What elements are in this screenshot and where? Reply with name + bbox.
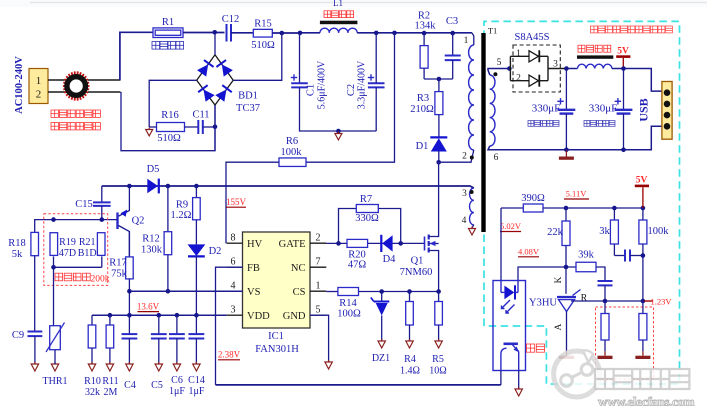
wire (185, 126, 199, 128)
wire (339, 209, 357, 244)
wire (543, 207, 566, 209)
svg-text:13.6V: 13.6V (137, 302, 160, 312)
transistor Q2 (PNP) (118, 186, 145, 257)
diode D4 (381, 235, 396, 265)
svg-text:4.08V: 4.08V (518, 247, 540, 257)
node junction (603, 299, 646, 304)
node junction (436, 160, 441, 165)
svg-text:B1D: B1D (78, 248, 97, 259)
resistor R11 (102, 315, 118, 398)
wire (216, 267, 243, 385)
node junction (392, 31, 397, 36)
node junction (108, 313, 199, 318)
svg-text:R19: R19 (59, 237, 76, 248)
svg-text:1: 1 (516, 49, 521, 59)
svg-text:1: 1 (316, 281, 321, 292)
svg-text:1: 1 (36, 75, 42, 87)
ground (406, 339, 413, 348)
capacitor C14 (188, 315, 205, 397)
svg-text:3.3μF/400V: 3.3μF/400V (357, 60, 368, 109)
ground (435, 339, 442, 348)
svg-text:R: R (581, 293, 588, 304)
resistor R18 (8, 232, 38, 331)
svg-text:DZ1: DZ1 (372, 353, 390, 364)
resistor R28 (639, 301, 647, 351)
wire (375, 33, 377, 131)
capacitor C8 330μF (589, 69, 633, 150)
wire (129, 290, 242, 292)
svg-text:TC37: TC37 (236, 103, 260, 114)
svg-text:5k: 5k (12, 249, 23, 260)
ground (126, 362, 133, 371)
svg-text:5.11V: 5.11V (566, 189, 588, 199)
ground (88, 362, 95, 371)
svg-text:R18: R18 (8, 238, 26, 249)
node junction (194, 184, 199, 189)
wire (226, 162, 279, 243)
capacitor C4 (122, 315, 138, 391)
ground (193, 362, 200, 371)
wire (488, 69, 509, 76)
ground (155, 362, 162, 371)
wire (272, 32, 300, 34)
svg-text:C15: C15 (75, 199, 93, 210)
svg-text:100k: 100k (648, 226, 670, 237)
wire (567, 68, 578, 70)
ground (31, 362, 38, 371)
svg-text:3: 3 (553, 60, 558, 70)
label 保险电阻 (152, 42, 184, 50)
label 光耦 (527, 344, 545, 352)
svg-text:100k: 100k (281, 147, 303, 158)
wire (424, 78, 453, 80)
svg-text:2: 2 (516, 74, 521, 84)
svg-text:C9: C9 (12, 330, 24, 341)
pin 1 (464, 36, 469, 46)
svg-text:8: 8 (231, 233, 236, 244)
node junction (422, 31, 427, 36)
wire (566, 207, 643, 209)
ground bar (559, 150, 574, 160)
optocoupler U3 LED (501, 281, 518, 314)
label 绿色电感 (324, 11, 354, 18)
wire (54, 256, 102, 267)
node junction (336, 129, 341, 134)
IC U1 pins (227, 233, 327, 322)
svg-text:C12: C12 (222, 14, 240, 25)
ground (325, 360, 332, 369)
resistor R16 (157, 110, 185, 144)
svg-text:1μF: 1μF (169, 386, 185, 397)
svg-text:C5: C5 (151, 380, 163, 391)
capacitor C6 (169, 315, 185, 397)
svg-text:5: 5 (497, 58, 502, 68)
wire (214, 105, 216, 151)
net label 13.6V (137, 302, 160, 312)
svg-text:C6: C6 (171, 375, 183, 386)
svg-text:D2: D2 (209, 246, 222, 257)
svg-text:NC: NC (291, 263, 306, 274)
node junction (564, 66, 569, 71)
svg-text:390Ω: 390Ω (521, 193, 545, 204)
capacitor C5 (151, 315, 167, 391)
wire (48, 80, 65, 92)
wire (149, 80, 197, 127)
wire (214, 32, 216, 55)
wire (472, 33, 474, 45)
resistor R22 390Ω (521, 193, 545, 212)
node junction (336, 241, 403, 246)
pin 4 (462, 216, 467, 226)
wire (121, 92, 215, 151)
svg-text:210Ω: 210Ω (410, 104, 434, 115)
label R (581, 293, 588, 304)
svg-text:130k: 130k (141, 245, 163, 256)
resistor R19 (50, 233, 76, 259)
svg-text:R15: R15 (254, 19, 272, 30)
label 贴片组电容 (584, 121, 615, 127)
svg-text:R5: R5 (432, 354, 444, 365)
resistor R7 (355, 194, 379, 224)
resistor R6 (279, 136, 306, 166)
svg-text:3k: 3k (599, 226, 610, 237)
svg-text:330μF: 330μF (589, 103, 618, 115)
capacitor C10 (614, 250, 643, 262)
connector USB (637, 82, 673, 140)
diode D5 (129, 164, 159, 193)
svg-text:100Ω: 100Ω (337, 309, 361, 320)
svg-text:1.2Ω: 1.2Ω (171, 210, 192, 221)
svg-text:K: K (554, 276, 564, 283)
resistor R25 100k (639, 208, 669, 301)
wire (439, 150, 474, 162)
svg-text:200k: 200k (91, 274, 110, 284)
svg-text:C2: C2 (346, 84, 357, 96)
svg-text:R21: R21 (79, 237, 96, 248)
wire (488, 146, 566, 150)
wire (231, 32, 253, 34)
svg-text:134k: 134k (415, 21, 437, 32)
net label 4.08V (518, 247, 540, 257)
svg-text:4: 4 (231, 281, 236, 292)
wire (472, 225, 474, 228)
resistor R5 (429, 292, 446, 377)
transformer T1 primary winding (469, 45, 474, 150)
svg-text:2M: 2M (104, 387, 118, 398)
wire (183, 32, 225, 34)
net label 5.02V (500, 221, 522, 232)
svg-text:R9: R9 (176, 200, 188, 211)
wire (326, 291, 338, 293)
svg-text:5V: 5V (617, 47, 629, 57)
power flag 5V (635, 176, 649, 209)
svg-text:USB: USB (637, 98, 651, 121)
svg-text:1: 1 (464, 36, 469, 46)
label AC100-240V (14, 56, 25, 114)
svg-text:D4: D4 (383, 254, 397, 265)
resistor R27 (601, 301, 609, 351)
svg-text:2: 2 (462, 152, 467, 162)
capacitor C12 (222, 14, 240, 42)
wire (88, 79, 121, 81)
node junction (280, 31, 285, 36)
svg-text:Q2: Q2 (132, 216, 145, 227)
net label 5.11V (564, 189, 589, 200)
transistor Q1 (MOSFET 7NM60) (400, 162, 439, 291)
ground (106, 362, 113, 371)
watermark (554, 350, 695, 406)
wire (233, 33, 282, 80)
resistor R12 (141, 186, 172, 291)
wire (359, 291, 439, 293)
node junction (127, 289, 170, 294)
wire (88, 91, 121, 93)
svg-text:T1: T1 (488, 26, 497, 36)
svg-text:1.23V: 1.23V (650, 296, 672, 306)
ground bar (635, 351, 650, 359)
svg-text:AC100-240V: AC100-240V (14, 56, 25, 114)
inductor L1 (320, 0, 358, 33)
svg-text:C3: C3 (446, 16, 458, 27)
shunt regulator Y3HU (TL431) (529, 290, 581, 352)
ground (515, 387, 522, 396)
pin 2 (462, 152, 474, 162)
wire (500, 371, 502, 385)
label 并联电阻200k (55, 273, 110, 284)
svg-text:1.4Ω: 1.4Ω (400, 366, 420, 377)
wire (326, 242, 424, 244)
diode D1 (416, 137, 448, 152)
node junction (564, 206, 569, 211)
transformer T1 core (481, 26, 497, 233)
common-mode choke toroid (63, 71, 90, 100)
node junction (621, 66, 626, 71)
svg-text:330μF: 330μF (532, 103, 561, 115)
capacitor C2 (346, 60, 385, 109)
box (divider) (596, 307, 654, 379)
svg-text:R7: R7 (360, 194, 372, 205)
wire (120, 32, 153, 80)
label 绕线电感 (578, 45, 611, 52)
capacitor C1 (291, 60, 328, 109)
resistor R21 (78, 233, 105, 259)
wire (300, 32, 320, 34)
svg-text:Q1: Q1 (411, 256, 424, 267)
capacitor C11 (192, 110, 209, 135)
svg-text:75k: 75k (111, 269, 128, 280)
ground (51, 350, 58, 371)
svg-text:R11: R11 (102, 376, 118, 387)
svg-text:39k: 39k (578, 250, 595, 261)
resistor R14 (337, 288, 361, 320)
IC U1 FAN301H body (243, 232, 311, 355)
svg-text:6: 6 (494, 153, 499, 163)
capacitor C15 (75, 186, 110, 220)
svg-text:GATE: GATE (279, 239, 306, 250)
wire (566, 126, 662, 150)
node junction (507, 66, 512, 71)
label K (554, 276, 564, 283)
svg-text:3: 3 (231, 305, 236, 316)
svg-text:22k: 22k (547, 227, 564, 238)
node junction (213, 125, 218, 130)
svg-text:3: 3 (462, 189, 467, 199)
svg-text:C1: C1 (306, 84, 317, 96)
svg-text:2: 2 (36, 89, 42, 101)
transformer T1 secondary winding (490, 75, 495, 146)
transformer T1 aux winding (470, 188, 474, 225)
wire (35, 220, 118, 233)
svg-text:BD1: BD1 (238, 91, 258, 102)
resistor R4 (400, 292, 420, 377)
svg-text:FB: FB (247, 263, 260, 274)
svg-text:www.elecfans.com: www.elecfans.com (598, 394, 695, 406)
svg-text:510Ω: 510Ω (251, 40, 275, 51)
svg-text:VDD: VDD (247, 311, 270, 322)
ground bar (598, 351, 613, 359)
wire (310, 315, 329, 362)
net label 155V (226, 197, 247, 207)
svg-text:R10: R10 (84, 376, 101, 387)
wire (149, 126, 156, 128)
svg-text:5.6μF/400V: 5.6μF/400V (317, 60, 328, 109)
net label 1.23V (644, 296, 672, 306)
boundary (secondary section) (484, 21, 680, 384)
svg-text:C4: C4 (124, 380, 136, 391)
wire (378, 209, 400, 244)
node junction (379, 289, 441, 294)
ground (378, 339, 385, 348)
node junction (374, 31, 379, 36)
svg-text:1μF: 1μF (189, 386, 205, 397)
svg-text:R17: R17 (109, 258, 127, 269)
label 的共模抑流圈 (51, 123, 100, 130)
resistor R2 (415, 11, 437, 80)
resistor R17 (109, 232, 133, 316)
svg-text:7NM60: 7NM60 (400, 267, 433, 278)
ground bar (559, 351, 574, 359)
svg-text:330Ω: 330Ω (355, 213, 379, 224)
diode D2 (zener) (188, 220, 222, 315)
net flag (primary ground) (146, 128, 153, 136)
wire (102, 186, 474, 188)
wire (565, 267, 567, 294)
svg-text:4: 4 (462, 216, 467, 226)
wire (R line) (571, 300, 643, 302)
svg-text:5.02V: 5.02V (500, 221, 522, 231)
wire (4.08V) (518, 267, 576, 281)
wire (518, 371, 520, 390)
node junction (212, 30, 217, 35)
wire (500, 208, 502, 281)
wire (53, 267, 55, 325)
svg-text:R1: R1 (162, 17, 174, 28)
svg-text:6: 6 (231, 257, 236, 268)
ground (pin 4) (469, 227, 476, 235)
capacitor C7 330μF (532, 69, 576, 150)
svg-text:10Ω: 10Ω (429, 366, 446, 377)
capacitor C9 (12, 330, 42, 364)
node junction (298, 31, 303, 36)
svg-text:GND: GND (283, 311, 306, 322)
svg-text:C11: C11 (192, 110, 209, 121)
svg-text:155V: 155V (226, 197, 247, 207)
box (parallel resistors) (44, 214, 108, 286)
resistor R15 (251, 19, 275, 52)
svg-text:2.38V: 2.38V (218, 350, 241, 360)
svg-text:R3: R3 (417, 93, 429, 104)
svg-text:5: 5 (316, 305, 321, 316)
node junction (621, 148, 626, 153)
capacitor C13 (598, 281, 613, 301)
svg-text:CS: CS (293, 287, 306, 298)
zener DZ1 (371, 292, 390, 365)
resistor R3 (410, 79, 443, 138)
svg-text:R14: R14 (339, 298, 357, 309)
svg-text:7: 7 (316, 257, 321, 268)
node junction (51, 217, 56, 222)
resistor R23 22k (547, 208, 570, 267)
svg-text:D1: D1 (416, 141, 429, 152)
resistor R24 3k (599, 208, 618, 256)
label A (554, 323, 564, 330)
node junction (51, 265, 56, 270)
net label 2.38V (218, 350, 241, 360)
svg-text:IC1: IC1 (268, 331, 284, 342)
svg-text:C14: C14 (188, 375, 205, 386)
inductor L2 (output) (577, 55, 613, 68)
node junction (612, 206, 617, 211)
svg-text:Y3HU: Y3HU (529, 298, 557, 309)
svg-text:2: 2 (316, 233, 321, 244)
svg-text:R16: R16 (161, 110, 179, 121)
capacitor C3 (445, 16, 461, 79)
power flag 5V (616, 47, 630, 69)
svg-text:S8A45S: S8A45S (514, 32, 549, 43)
svg-text:THR1: THR1 (43, 376, 68, 387)
page border artifact (0, 0, 707, 7)
resistor R9 (171, 186, 201, 221)
svg-text:D5: D5 (147, 164, 160, 175)
pin 3 (462, 189, 473, 199)
net flag (primary ground) (335, 132, 342, 140)
label 嵌入磁软架中 (51, 110, 100, 117)
resistor R20 (347, 239, 368, 270)
wire (92, 314, 227, 316)
svg-text:VS: VS (247, 287, 261, 298)
wire (306, 33, 395, 162)
node junction (127, 184, 132, 189)
node junction (437, 77, 442, 82)
bridge rectifier BD1 (197, 55, 260, 114)
svg-text:HV: HV (247, 239, 263, 250)
svg-text:32k: 32k (85, 387, 100, 398)
svg-text:R4: R4 (404, 354, 416, 365)
svg-text:5V: 5V (636, 176, 648, 186)
wire (438, 151, 440, 162)
rectifier U2 S8A45S box (513, 32, 560, 92)
svg-text:R6: R6 (286, 136, 298, 147)
node junction (641, 206, 646, 211)
node junction (166, 184, 171, 189)
wire (299, 33, 301, 83)
wire (300, 87, 377, 131)
wire (596, 267, 605, 281)
wire (357, 32, 472, 34)
node junction (564, 265, 569, 270)
svg-text:47D: 47D (59, 248, 76, 259)
svg-text:FAN301H: FAN301H (255, 344, 299, 355)
